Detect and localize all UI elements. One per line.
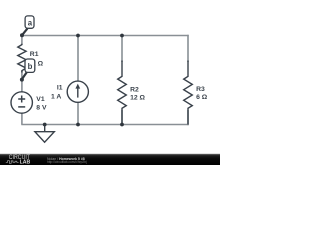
- CircuitLab banner: [0, 154, 220, 165]
- wire top rail: [21, 35, 188, 37]
- node a: [20, 16, 34, 37]
- junction bottom rail R2: [120, 123, 124, 127]
- wire I1 branch upper: [77, 36, 79, 82]
- voltage source V1: [11, 92, 32, 113]
- resistor R2: [118, 61, 127, 125]
- wire I1 branch lower: [77, 102, 79, 124]
- ground: [35, 125, 54, 143]
- CircuitLab logo waveform: [6, 161, 19, 164]
- wire R2 branch lower: [121, 110, 123, 125]
- resistor R1: [18, 44, 26, 73]
- svg-text:6 Ω: 6 Ω: [196, 94, 208, 101]
- svg-text:a: a: [28, 19, 33, 28]
- junction bottom rail I1: [76, 123, 80, 127]
- svg-text:I1: I1: [57, 84, 63, 91]
- svg-text:R1: R1: [30, 51, 39, 58]
- wire left branch middle: [21, 71, 23, 92]
- svg-text:1 A: 1 A: [51, 94, 61, 101]
- svg-text:8 V: 8 V: [36, 105, 47, 112]
- current source I1: [67, 81, 88, 102]
- svg-text:b: b: [28, 62, 33, 71]
- svg-text:V1: V1: [36, 96, 45, 103]
- svg-text:R2: R2: [130, 86, 139, 93]
- junction bottom rail ground: [43, 123, 47, 127]
- wire left branch upper: [21, 36, 23, 45]
- node b: [20, 59, 35, 82]
- junction top rail I1: [76, 34, 80, 38]
- wire bottom rail: [21, 124, 188, 126]
- wire R3 branch upper: [187, 35, 189, 62]
- svg-text:R3: R3: [196, 86, 205, 93]
- wire R3 branch lower: [187, 110, 189, 125]
- wire left branch lower: [21, 113, 23, 125]
- svg-text:12 Ω: 12 Ω: [130, 95, 145, 102]
- resistor R3: [184, 61, 193, 125]
- svg-text:LAB: LAB: [20, 160, 31, 165]
- wire R2 branch upper: [121, 36, 123, 63]
- svg-text:http://circuitlab.com/c/hrp2bj: http://circuitlab.com/c/hrp2bj: [47, 160, 87, 164]
- junction top rail R2: [120, 34, 124, 38]
